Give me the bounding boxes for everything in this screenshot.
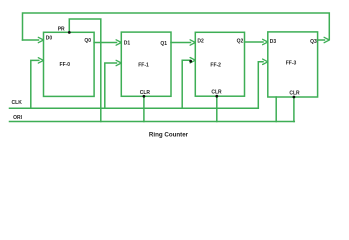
svg-text:CLR: CLR [140,90,151,96]
wire: CLK branch to FF-3 clock [258,62,263,109]
arrowhead: D0 input [38,37,43,42]
svg-text:Q0: Q0 [84,38,91,44]
arrowhead: D2 input [190,40,195,45]
junction: FF-2 CLR node dot [215,95,218,98]
svg-text:D3: D3 [270,39,277,45]
flip-flop U2 FF-1 box [121,32,171,96]
flip-flop U4 FF-3 box [268,32,318,97]
svg-text:Q2: Q2 [237,39,244,45]
junction: PR node dot [68,31,71,34]
wire: Q0 to D1 [94,42,116,44]
arrowhead: D1 input [116,40,121,45]
arrowhead: FF-2 clock [190,58,195,63]
wire: Q3 output to riser [318,39,325,41]
svg-text:FF-0: FF-0 [60,62,71,68]
svg-text:CLK: CLK [12,100,23,106]
arrowhead: FF-3 clock [263,59,268,64]
wire: CLK bus line [10,107,259,109]
arrowhead: FF-1 clock [116,60,121,65]
svg-text:D1: D1 [124,40,131,46]
junction: FF-2 clock wire dot [189,60,192,63]
wire: Q2 to D3 [245,41,264,43]
wire: CLK branch to FF-2 clock [182,60,190,108]
svg-text:ORI: ORI [13,115,23,121]
wire: PR over-wire from PR pin down to ORI line [69,19,101,122]
junction: FF-1 CLR node dot [143,95,146,98]
arrowhead: Q3 to riser [324,37,329,42]
wire: CLK branch to FF-1 clock [105,63,117,108]
wire: ORI stub to FF-3 bottom [275,97,277,122]
junction: FF-3 CLR node dot [293,96,296,99]
svg-text:Q3: Q3 [310,39,317,45]
flip-flop U3 FF-2 box [195,32,244,96]
svg-text:PR: PR [58,26,65,32]
svg-text:FF-3: FF-3 [286,60,297,66]
flip-flop U1 FF-0 box [44,32,95,96]
svg-text:D2: D2 [197,38,204,44]
svg-text:CLR: CLR [289,90,300,96]
svg-text:FF-1: FF-1 [138,62,149,68]
wire: feedback into D0 [23,39,39,41]
wire: ORI to FF-3 CLR [293,97,295,122]
svg-text:D0: D0 [46,36,53,42]
arrowhead: FF-0 clock [38,58,43,63]
wire: ORI to FF-1 CLR [143,96,145,121]
wire: Q3 feedback top rail [23,13,330,40]
arrowhead: D3 input [263,39,268,44]
svg-text:Q1: Q1 [160,41,167,47]
wire: CLK branch to FF-0 clock [31,60,39,108]
wire: ORI to FF-2 CLR [216,96,218,121]
wire: ORI bus line [10,121,295,123]
wire: Q1 to D2 [171,42,191,44]
svg-text:CLR: CLR [211,90,222,96]
svg-text:Ring Counter: Ring Counter [149,132,189,139]
svg-text:FF-2: FF-2 [210,62,221,68]
